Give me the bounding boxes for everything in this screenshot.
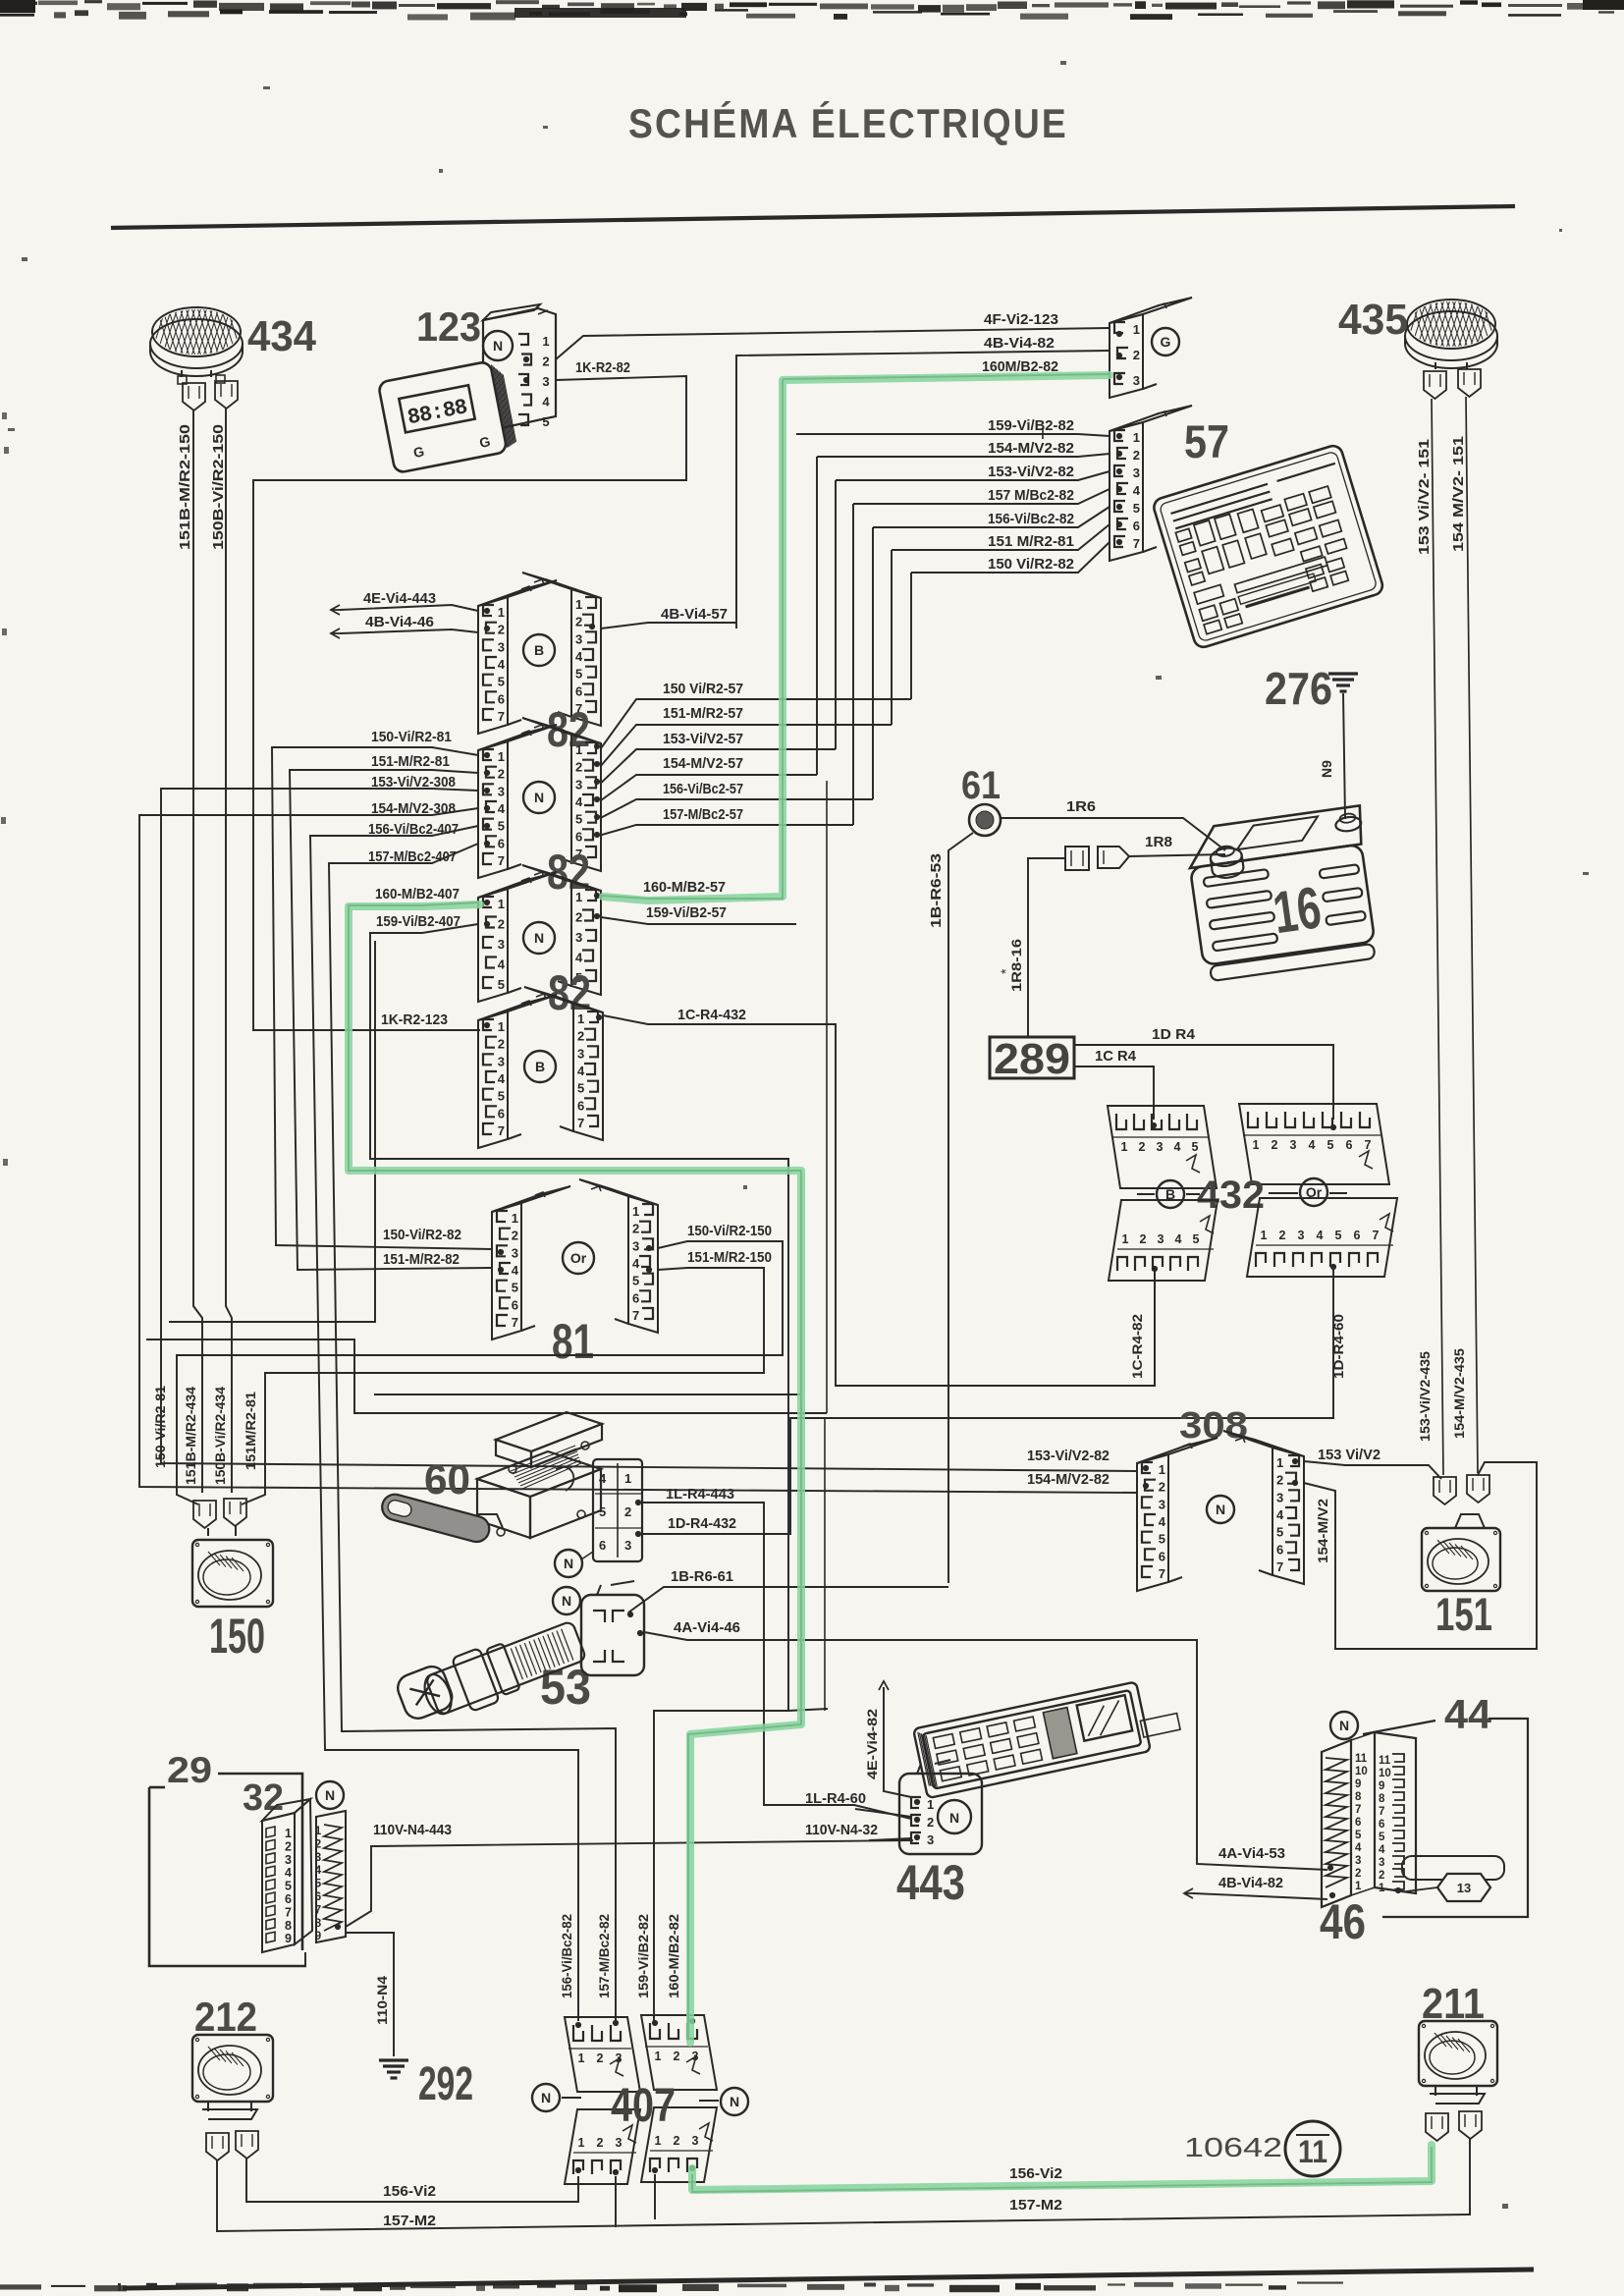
svg-text:2: 2 [315,1838,321,1850]
svg-text:4: 4 [575,649,583,664]
svg-text:4B-Vi4-82: 4B-Vi4-82 [1218,1875,1283,1891]
svg-text:2: 2 [575,760,582,775]
svg-text:B: B [534,642,544,658]
svg-text:7: 7 [1133,536,1140,551]
svg-text:153-Vi/V2-308: 153-Vi/V2-308 [371,774,456,791]
svg-text:1D R4: 1D R4 [1152,1026,1196,1043]
svg-text:153-Vi/V2-435: 153-Vi/V2-435 [1417,1351,1433,1442]
svg-text:154-M/V2: 154-M/V2 [1315,1499,1330,1563]
svg-text:4B-Vi4-82: 4B-Vi4-82 [984,335,1055,352]
svg-text:N: N [541,2090,551,2105]
svg-text:3: 3 [1298,1229,1305,1242]
svg-text:4: 4 [498,801,506,816]
svg-text:156-Vi/Bc2-82: 156-Vi/Bc2-82 [559,1914,574,1998]
svg-text:7: 7 [498,709,505,724]
svg-text:443: 443 [896,1855,965,1910]
svg-text:13: 13 [1457,1881,1471,1895]
svg-text:2: 2 [542,355,549,369]
svg-text:2: 2 [512,1229,518,1243]
svg-text:6: 6 [498,1106,505,1121]
svg-text:2: 2 [498,1037,505,1052]
svg-text:157-M/Bc2-57: 157-M/Bc2-57 [663,806,743,823]
svg-text:150-Vi/R2-81: 150-Vi/R2-81 [371,729,452,745]
svg-text:1: 1 [498,897,505,911]
svg-text:2: 2 [632,1222,639,1236]
svg-text:3: 3 [575,631,582,646]
svg-text:4: 4 [1355,1842,1362,1854]
svg-text:3: 3 [498,937,505,952]
svg-text:N: N [1216,1502,1225,1517]
svg-text:2: 2 [1133,448,1140,463]
svg-text:151: 151 [1435,1588,1492,1640]
svg-text:3: 3 [577,1046,584,1061]
svg-text:4A-Vi4-53: 4A-Vi4-53 [1218,1845,1285,1862]
svg-text:6: 6 [575,683,582,698]
svg-text:3: 3 [1276,1490,1283,1504]
svg-text:1B-R6-53: 1B-R6-53 [928,853,945,928]
svg-text:11: 11 [1298,2134,1327,2169]
svg-text:1L-R4-443: 1L-R4-443 [666,1486,734,1503]
svg-text:1K-R2-82: 1K-R2-82 [575,359,630,376]
svg-text:4B-Vi4-57: 4B-Vi4-57 [661,606,728,623]
svg-text:3: 3 [1133,465,1140,480]
svg-text:5: 5 [1379,1831,1385,1843]
svg-text:5: 5 [1276,1525,1283,1540]
svg-text:N: N [325,1787,335,1803]
svg-text:Or: Or [570,1250,587,1266]
svg-text:N: N [562,1593,571,1609]
svg-text:292: 292 [418,2058,473,2110]
svg-text:154-M/V2-435: 154-M/V2-435 [1451,1348,1467,1439]
svg-text:289: 289 [994,1035,1070,1083]
svg-text:2: 2 [498,917,505,932]
svg-text:5: 5 [577,1081,584,1096]
svg-text:1: 1 [512,1211,518,1226]
svg-text:2: 2 [577,1029,584,1044]
svg-text:4: 4 [1174,1140,1181,1154]
svg-text:4: 4 [1175,1232,1182,1246]
svg-text:4: 4 [1159,1514,1166,1529]
svg-text:5: 5 [542,414,549,429]
svg-text:1: 1 [1133,322,1140,337]
svg-text:1R6: 1R6 [1066,798,1096,815]
svg-text:7: 7 [1379,1806,1384,1818]
svg-text:3: 3 [692,2134,699,2148]
svg-text:154-M/V2-57: 154-M/V2-57 [663,755,743,772]
svg-text:4: 4 [599,1471,607,1486]
svg-text:*: * [998,968,1013,974]
svg-text:150: 150 [209,1609,265,1664]
svg-text:10: 10 [1379,1768,1391,1779]
svg-text:4: 4 [1309,1138,1316,1152]
svg-text:82: 82 [548,965,591,1020]
svg-text:156-Vi/Bc2-407: 156-Vi/Bc2-407 [368,821,459,838]
svg-text:11: 11 [1355,1753,1368,1765]
svg-text:3: 3 [575,777,582,792]
svg-text:9: 9 [285,1932,292,1945]
svg-text:2: 2 [1140,1232,1147,1246]
svg-text:4: 4 [512,1263,519,1278]
svg-text:6: 6 [577,1098,584,1113]
svg-text:1: 1 [498,1019,505,1034]
svg-text:2: 2 [575,910,582,925]
svg-text:5: 5 [599,1504,606,1519]
svg-text:5: 5 [498,977,505,992]
svg-text:6: 6 [1133,519,1140,533]
svg-text:151 M/R2-81: 151 M/R2-81 [988,533,1074,550]
svg-text:44: 44 [1444,1691,1492,1737]
svg-text:6: 6 [498,691,505,706]
svg-text:1: 1 [575,742,582,757]
svg-text:153-Vi/V2-82: 153-Vi/V2-82 [1027,1448,1110,1464]
svg-text:4B-Vi4-46: 4B-Vi4-46 [365,614,434,630]
svg-text:1K-R2-123: 1K-R2-123 [381,1011,448,1028]
svg-text:3: 3 [927,1832,934,1847]
svg-text:3: 3 [1133,373,1140,388]
svg-text:1: 1 [624,1471,631,1486]
svg-text:7: 7 [1276,1559,1283,1574]
svg-text:46: 46 [1320,1894,1366,1949]
svg-text:6: 6 [599,1538,606,1553]
svg-text:157 M/Bc2-82: 157 M/Bc2-82 [988,487,1074,504]
svg-text:3: 3 [498,784,505,798]
svg-text:2: 2 [285,1839,292,1853]
svg-text:4A-Vi4-46: 4A-Vi4-46 [674,1619,740,1636]
svg-text:3: 3 [512,1245,518,1260]
svg-text:4: 4 [498,657,506,672]
svg-text:9: 9 [315,1931,321,1942]
svg-text:B: B [535,1059,545,1074]
svg-text:156-Vi/Bc2-57: 156-Vi/Bc2-57 [663,781,743,797]
svg-text:7: 7 [1365,1138,1372,1152]
svg-text:1: 1 [498,749,505,764]
svg-text:9: 9 [1355,1778,1361,1790]
svg-text:3: 3 [1290,1138,1297,1152]
svg-text:154-M/V2-82: 154-M/V2-82 [988,440,1074,457]
svg-text:150-Vi/R2-82: 150-Vi/R2-82 [383,1227,461,1243]
svg-text:159-Vi/B2-82: 159-Vi/B2-82 [988,417,1074,434]
svg-text:1C-R4-432: 1C-R4-432 [677,1007,746,1023]
svg-text:3: 3 [624,1538,631,1553]
svg-text:153 Vi/V2: 153 Vi/V2 [1318,1447,1380,1463]
svg-text:32: 32 [243,1777,284,1819]
svg-text:4: 4 [575,794,583,809]
svg-text:6: 6 [1159,1549,1165,1563]
svg-text:5: 5 [498,675,505,689]
svg-text:G: G [1161,334,1171,350]
svg-text:1: 1 [632,1204,639,1219]
svg-text:7: 7 [1355,1804,1361,1816]
svg-text:7: 7 [498,1123,505,1138]
svg-text:4E-Vi4-443: 4E-Vi4-443 [363,590,436,607]
svg-text:156-Vi2: 156-Vi2 [1009,2165,1062,2182]
svg-text:1: 1 [1253,1138,1260,1152]
svg-text:3: 3 [315,1852,321,1864]
svg-text:150B-Vi/R2-150: 150B-Vi/R2-150 [210,424,227,550]
svg-text:6: 6 [575,829,582,844]
svg-text:N: N [534,930,544,946]
svg-text:407: 407 [611,2080,676,2132]
svg-text:9: 9 [1379,1780,1384,1792]
svg-text:3: 3 [1157,1140,1164,1154]
svg-text:2: 2 [674,2050,680,2063]
svg-text:1: 1 [575,597,582,612]
svg-text:151-M/R2-81: 151-M/R2-81 [371,753,450,770]
svg-text:2: 2 [1159,1480,1165,1495]
svg-text:3: 3 [1158,1232,1164,1246]
svg-text:160-M/B2-57: 160-M/B2-57 [643,879,726,896]
svg-text:1: 1 [1355,1881,1362,1892]
svg-text:3: 3 [616,2136,623,2150]
svg-text:4: 4 [542,395,550,410]
svg-text:3: 3 [1379,1857,1384,1869]
svg-text:8: 8 [1355,1791,1362,1803]
svg-text:1D-R4-432: 1D-R4-432 [668,1515,736,1532]
svg-text:2: 2 [1139,1140,1146,1154]
svg-text:7: 7 [285,1905,292,1919]
svg-text:N: N [534,790,544,805]
svg-text:6: 6 [315,1891,321,1903]
svg-text:8: 8 [285,1919,292,1933]
svg-text:7: 7 [512,1315,518,1330]
svg-text:1: 1 [927,1797,934,1812]
svg-text:4: 4 [1379,1844,1385,1856]
svg-text:150B-Vi/R2-434: 150B-Vi/R2-434 [212,1387,228,1485]
svg-text:5: 5 [1335,1229,1342,1242]
svg-text:4: 4 [285,1866,292,1880]
svg-text:153 Vi/V2- 151: 153 Vi/V2- 151 [1416,439,1433,555]
svg-text:6: 6 [1355,1817,1361,1829]
svg-text:157-M/Bc2-82: 157-M/Bc2-82 [596,1914,612,1998]
svg-text:150 Vi/R2-82: 150 Vi/R2-82 [988,556,1074,573]
svg-text:159-Vi/B2-82: 159-Vi/B2-82 [635,1914,651,1998]
svg-text:157-M/Bc2-407: 157-M/Bc2-407 [368,848,457,865]
svg-text:151B-M/R2-434: 151B-M/R2-434 [183,1387,198,1485]
svg-text:10642: 10642 [1184,2132,1282,2162]
svg-text:4: 4 [1317,1229,1324,1242]
svg-text:2: 2 [597,2051,604,2065]
svg-text:81: 81 [552,1314,594,1369]
svg-text:123: 123 [416,303,481,350]
svg-text:435: 435 [1338,296,1408,344]
svg-text:6: 6 [498,836,505,850]
svg-text:4: 4 [632,1256,640,1271]
svg-text:150 Vi/R2-57: 150 Vi/R2-57 [663,681,743,697]
svg-text:5: 5 [498,1089,505,1104]
svg-text:3: 3 [285,1853,292,1867]
svg-text:N: N [1339,1718,1349,1733]
svg-text:1: 1 [1121,1140,1128,1154]
svg-text:5: 5 [1355,1830,1362,1841]
svg-text:151M/R2-81: 151M/R2-81 [243,1392,258,1470]
svg-text:160-M/B2-407: 160-M/B2-407 [375,886,460,902]
svg-text:2: 2 [927,1815,934,1830]
svg-text:3: 3 [1355,1855,1361,1867]
svg-text:154 M/V2- 151: 154 M/V2- 151 [1450,436,1467,552]
svg-text:5: 5 [1193,1232,1200,1246]
svg-text:2: 2 [1355,1868,1361,1880]
svg-text:212: 212 [194,1994,257,2040]
svg-text:5: 5 [1327,1138,1334,1152]
svg-text:10: 10 [1355,1766,1368,1777]
svg-text:3: 3 [575,930,582,945]
svg-text:160-M/B2-82: 160-M/B2-82 [666,1914,681,1998]
svg-text:2: 2 [498,623,505,637]
svg-text:5: 5 [1159,1532,1165,1547]
svg-text:3: 3 [498,639,505,654]
svg-text:1: 1 [315,1826,322,1837]
svg-text:157-M2: 157-M2 [383,2213,436,2229]
svg-text:4: 4 [498,957,506,972]
svg-text:7: 7 [577,1116,584,1130]
svg-text:6: 6 [1276,1542,1283,1557]
svg-text:61: 61 [961,764,1001,807]
svg-text:82: 82 [547,702,590,757]
svg-text:N: N [493,338,503,354]
svg-text:2: 2 [1133,348,1140,362]
svg-text:1: 1 [655,2050,662,2063]
svg-text:1: 1 [542,334,549,349]
svg-text:154-M/V2-82: 154-M/V2-82 [1027,1471,1110,1488]
svg-text:1: 1 [578,2136,585,2150]
svg-text:2: 2 [498,767,505,782]
svg-text:1D-R4-60: 1D-R4-60 [1330,1314,1346,1379]
svg-text:1: 1 [578,2051,585,2065]
svg-text:N9: N9 [1319,760,1334,778]
svg-text:159-Vi/B2-57: 159-Vi/B2-57 [646,904,727,921]
svg-text:29: 29 [167,1750,212,1790]
svg-text:3: 3 [1159,1497,1165,1511]
svg-text:4E-Vi4-82: 4E-Vi4-82 [864,1709,880,1779]
svg-text:1: 1 [1276,1455,1283,1470]
svg-text:432: 432 [1197,1174,1265,1217]
svg-text:5: 5 [575,812,582,827]
svg-text:154-M/V2-308: 154-M/V2-308 [371,800,456,817]
svg-text:151-M/R2-82: 151-M/R2-82 [383,1251,460,1268]
svg-text:159-Vi/B2-407: 159-Vi/B2-407 [376,913,460,930]
svg-text:5: 5 [1133,501,1140,516]
svg-text:1C R4: 1C R4 [1095,1048,1137,1065]
svg-text:5: 5 [632,1274,639,1288]
svg-text:1: 1 [575,890,582,904]
svg-text:276: 276 [1265,663,1332,714]
svg-text:150-Vi/R2-81: 150-Vi/R2-81 [152,1386,168,1468]
svg-text:1B-R6-61: 1B-R6-61 [671,1568,733,1585]
svg-text:434: 434 [247,312,316,360]
svg-text:2: 2 [1279,1229,1286,1242]
svg-text:151-M/R2-150: 151-M/R2-150 [687,1249,772,1266]
svg-text:2: 2 [1272,1138,1278,1152]
svg-text:151-M/R2-57: 151-M/R2-57 [663,705,743,722]
svg-text:5: 5 [512,1281,518,1295]
svg-text:6: 6 [512,1297,518,1312]
svg-text:7: 7 [1373,1229,1380,1242]
svg-text:5: 5 [498,819,505,834]
svg-text:1: 1 [1159,1462,1165,1477]
svg-text:5: 5 [575,667,582,682]
svg-text:6: 6 [1346,1138,1353,1152]
svg-text:8: 8 [1379,1793,1385,1805]
svg-text:6: 6 [285,1892,292,1906]
svg-text:2: 2 [624,1504,631,1519]
svg-text:N: N [564,1556,573,1571]
svg-text:110V-N4-32: 110V-N4-32 [805,1822,878,1838]
svg-text:110-N4: 110-N4 [374,1976,390,2025]
svg-text:3: 3 [542,374,549,389]
svg-text:2: 2 [1276,1473,1283,1488]
svg-text:5: 5 [285,1880,292,1893]
svg-text:16: 16 [1270,874,1326,946]
svg-text:3: 3 [498,1054,505,1068]
svg-text:153-Vi/V2-57: 153-Vi/V2-57 [663,731,743,747]
svg-text:1: 1 [285,1827,292,1840]
svg-text:1L-R4-60: 1L-R4-60 [805,1790,866,1807]
svg-text:1: 1 [655,2134,662,2148]
svg-text:7: 7 [498,853,505,868]
svg-text:7: 7 [1159,1566,1165,1581]
svg-text:5: 5 [1192,1140,1199,1154]
svg-text:1: 1 [498,605,505,620]
svg-text:4: 4 [577,1064,585,1078]
svg-text:4F-Vi2-123: 4F-Vi2-123 [984,311,1058,328]
svg-text:60: 60 [424,1456,470,1503]
svg-text:4: 4 [1133,483,1141,498]
svg-text:6: 6 [1354,1229,1361,1242]
svg-text:110V-N4-443: 110V-N4-443 [373,1822,452,1838]
svg-text:1R8-16: 1R8-16 [1008,939,1024,992]
svg-text:3: 3 [632,1238,639,1253]
svg-text:2: 2 [575,615,582,629]
svg-text:2: 2 [597,2136,604,2150]
svg-text:1: 1 [577,1011,584,1026]
svg-text:151B-M/R2-150: 151B-M/R2-150 [177,424,193,550]
svg-text:57: 57 [1184,415,1229,467]
svg-text:156-Vi2: 156-Vi2 [383,2183,436,2200]
svg-text:1: 1 [1133,430,1140,445]
svg-text:6: 6 [1379,1819,1384,1831]
svg-text:156-Vi/Bc2-82: 156-Vi/Bc2-82 [988,511,1074,527]
svg-text:8: 8 [315,1918,322,1930]
svg-text:N: N [730,2094,739,2109]
svg-text:1: 1 [1122,1232,1129,1246]
svg-text:5: 5 [315,1879,322,1890]
svg-text:1R8: 1R8 [1145,834,1172,850]
svg-text:4: 4 [575,951,583,965]
svg-text:2: 2 [674,2134,680,2148]
svg-text:7: 7 [632,1308,639,1323]
svg-text:SCHÉMA ÉLECTRIQUE: SCHÉMA ÉLECTRIQUE [628,100,1068,146]
svg-text:4: 4 [1276,1507,1284,1522]
svg-text:153-Vi/V2-82: 153-Vi/V2-82 [988,464,1074,480]
svg-text:N: N [949,1810,959,1826]
svg-text:6: 6 [632,1290,639,1305]
svg-text:4: 4 [315,1865,322,1877]
svg-text:1: 1 [1379,1883,1385,1894]
svg-text:1: 1 [1261,1229,1268,1242]
svg-text:150-Vi/R2-150: 150-Vi/R2-150 [687,1223,772,1239]
svg-text:4: 4 [498,1071,506,1086]
svg-text:2: 2 [1379,1870,1384,1882]
svg-text:157-M2: 157-M2 [1009,2197,1062,2214]
svg-text:11: 11 [1379,1755,1391,1767]
svg-text:1C-R4-82: 1C-R4-82 [1129,1314,1145,1379]
svg-text:7: 7 [315,1904,321,1916]
